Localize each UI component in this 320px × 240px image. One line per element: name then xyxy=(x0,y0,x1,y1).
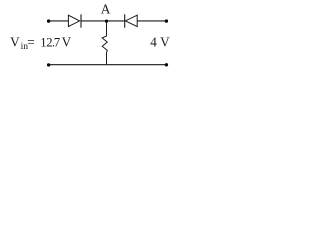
svg-text:A: A xyxy=(101,2,111,17)
wire top-right segment xyxy=(137,20,166,22)
terminal dot bottom-right xyxy=(165,63,168,66)
terminal dot top-left xyxy=(47,19,50,22)
wire middle segment through node A xyxy=(81,20,125,22)
diode D1 (left, anode left, cathode bar at node A side) xyxy=(68,14,81,27)
terminal dot bottom-left xyxy=(47,63,50,66)
node A junction dot xyxy=(105,20,108,23)
resistor R1 (vertical, node A to bottom rail) xyxy=(102,22,107,65)
diode D2 (right, anode right, cathode bar at node A side) xyxy=(125,14,138,27)
terminal dot top-right xyxy=(165,19,168,22)
svg-text:4V: 4V xyxy=(150,34,170,49)
wire bottom rail xyxy=(48,64,166,66)
svg-text:Vin=12.7V: Vin=12.7V xyxy=(10,34,72,52)
wire top-left segment xyxy=(49,20,69,22)
